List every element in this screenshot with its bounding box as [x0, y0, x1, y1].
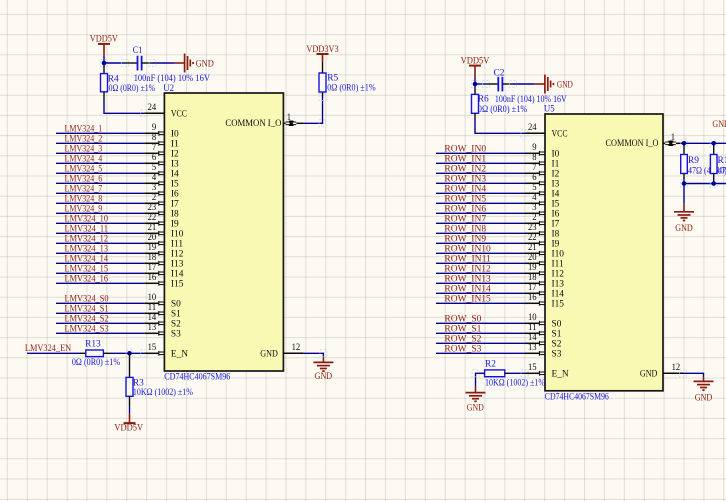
wire net ROW_S3: [436, 352, 525, 354]
wire net LMV324_S3: [56, 332, 144, 334]
resistor R9: [683, 143, 685, 147]
svg-text:GND: GND: [196, 59, 214, 69]
svg-text:11: 11: [528, 323, 537, 333]
pin 4 I5 (U5): [525, 202, 540, 204]
wire net ROW_IN3: [436, 182, 525, 184]
pin 21 I10 (U5): [525, 252, 540, 254]
svg-text:6: 6: [152, 153, 157, 163]
svg-text:I12: I12: [552, 269, 565, 279]
svg-text:S2: S2: [171, 319, 181, 329]
svg-text:ROW_IN2: ROW_IN2: [444, 164, 486, 174]
wire net ROW_IN15: [436, 302, 525, 304]
svg-text:S3: S3: [552, 349, 562, 359]
ground GND (right of C1): [175, 62, 185, 64]
svg-text:I0: I0: [552, 149, 560, 159]
wire net LMV324_8: [56, 202, 144, 204]
svg-text:R6: R6: [478, 95, 489, 105]
wire net LMV324_S0: [56, 302, 144, 304]
svg-text:ROW_IN1: ROW_IN1: [444, 154, 486, 164]
pin 20 I11 (U5): [525, 262, 540, 264]
svg-text:4: 4: [152, 173, 157, 183]
svg-text:100nF (104) 10% 16V: 100nF (104) 10% 16V: [495, 94, 567, 105]
svg-text:CD74HC4067SM96: CD74HC4067SM96: [164, 373, 230, 383]
pin 16 I15 (U5): [525, 302, 540, 304]
wire net LMV324_16: [56, 282, 144, 284]
svg-text:COMMON I_O: COMMON I_O: [606, 139, 659, 149]
svg-text:I11: I11: [552, 259, 564, 269]
svg-text:22: 22: [528, 233, 537, 243]
svg-text:7: 7: [152, 143, 157, 153]
svg-text:ROW_IN8: ROW_IN8: [444, 224, 486, 234]
node junction R9 bottom: [682, 181, 687, 186]
svg-text:I1: I1: [552, 159, 560, 169]
svg-text:ROW_IN4: ROW_IN4: [444, 184, 486, 194]
pin 9 I0 (U5): [525, 152, 540, 154]
svg-text:24: 24: [148, 103, 157, 113]
node junction VDD5V/R6/C2: [473, 82, 478, 87]
svg-text:14: 14: [148, 313, 157, 323]
svg-text:23: 23: [148, 203, 157, 213]
svg-text:ROW_IN9: ROW_IN9: [444, 234, 486, 244]
pin 8 I1: [144, 142, 159, 144]
svg-text:ROW_IN0: ROW_IN0: [444, 144, 486, 154]
resistor R5: [322, 92, 324, 97]
wire net ROW_IN6: [436, 212, 525, 214]
svg-text:0Ω (0R0) ±1%: 0Ω (0R0) ±1%: [109, 83, 156, 94]
pin 8 I1 (U5): [525, 162, 540, 164]
capacitor C2: [486, 83, 498, 85]
svg-text:2: 2: [152, 193, 157, 203]
wire pin12 to ground: [303, 353, 323, 357]
svg-text:10: 10: [528, 313, 537, 323]
wire net ROW_IN13: [436, 282, 525, 284]
wire net LMV324_S2: [56, 322, 144, 324]
svg-text:R13: R13: [85, 339, 101, 349]
svg-text:18: 18: [528, 273, 537, 283]
node junction R9 top: [682, 141, 687, 146]
wire net ROW_IN12: [436, 272, 525, 274]
wire net LMV324_1: [56, 132, 144, 134]
svg-text:LMV324_S3: LMV324_S3: [65, 324, 109, 334]
svg-text:LMV324_EN: LMV324_EN: [25, 344, 71, 354]
svg-text:I7: I7: [171, 199, 179, 209]
wire LMV324_EN to R13: [27, 352, 80, 354]
svg-text:LMV324_3: LMV324_3: [65, 144, 103, 154]
pin 3 I6: [144, 192, 159, 194]
pin 14 S2: [144, 322, 159, 324]
svg-text:24: 24: [528, 123, 537, 133]
wire terminator bottoms: [684, 183, 726, 185]
svg-text:I9: I9: [552, 239, 560, 249]
svg-text:VCC: VCC: [171, 109, 187, 119]
resistor R10: [713, 143, 715, 147]
wire R13 to pin 15: [110, 352, 144, 354]
wire R6 to pin 24 (U5): [475, 119, 525, 133]
svg-text:LMV324_S2: LMV324_S2: [65, 314, 109, 324]
node junction R10 bottom: [711, 181, 716, 186]
svg-text:14: 14: [528, 333, 537, 343]
pin 21 I10: [144, 232, 159, 234]
svg-text:2: 2: [532, 213, 537, 223]
svg-text:I2: I2: [171, 149, 179, 159]
pin 5 I4 (U5): [525, 192, 540, 194]
wire net LMV324_6: [56, 182, 144, 184]
svg-text:8: 8: [532, 153, 537, 163]
pin 15 E_N: [144, 352, 159, 354]
wire R4 to pin 24: [104, 101, 144, 113]
svg-text:19: 19: [148, 243, 157, 253]
pin 16 I15: [144, 282, 159, 284]
wire R2 to pin 15 (U5): [510, 372, 525, 374]
svg-text:VDD3V3: VDD3V3: [306, 45, 338, 55]
wire pin12 to ground (U5): [683, 373, 704, 376]
pin 6 I3 (U5): [525, 182, 540, 184]
svg-text:ROW_IN7: ROW_IN7: [444, 214, 486, 224]
svg-text:I10: I10: [171, 229, 184, 239]
svg-text:6: 6: [532, 173, 537, 183]
wire net ROW_IN14: [436, 292, 525, 294]
svg-text:16: 16: [528, 293, 537, 303]
svg-text:100nF (104) 10% 16V: 100nF (104) 10% 16V: [134, 73, 210, 84]
power port VDD5V (below R3): [129, 407, 131, 414]
svg-text:11: 11: [148, 303, 157, 313]
svg-text:LMV324_1: LMV324_1: [65, 124, 103, 134]
multiplexer U2 body: [164, 93, 283, 371]
svg-text:LMV324_8: LMV324_8: [65, 194, 103, 204]
pin 10 S0 (U5): [525, 322, 540, 324]
pin 13 S3 (U5): [525, 352, 540, 354]
multiplexer U5 body: [545, 114, 663, 391]
pin 3 I6 (U5): [525, 212, 540, 214]
pin 1 COMMON I_O (U5): [663, 142, 665, 144]
wire net ROW_IN0: [436, 152, 525, 154]
svg-text:1: 1: [671, 133, 676, 143]
svg-text:GND: GND: [260, 349, 278, 359]
svg-text:17: 17: [528, 283, 537, 293]
svg-text:47Ω (47R0) ±1%: 47Ω (47R0) ±1%: [718, 165, 726, 176]
node junction R10 top: [711, 141, 716, 146]
svg-text:I8: I8: [171, 209, 179, 219]
svg-text:LMV324_2: LMV324_2: [65, 134, 103, 144]
svg-text:I14: I14: [552, 289, 565, 299]
ground GND (terminators): [683, 204, 685, 212]
svg-text:16: 16: [148, 273, 157, 283]
pin 23 I8: [144, 212, 159, 214]
wire net ROW_IN11: [436, 262, 525, 264]
pin 7 I2: [144, 152, 159, 154]
svg-text:1: 1: [287, 113, 292, 123]
ground GND at U2 pin 12: [322, 357, 324, 362]
svg-text:I3: I3: [171, 159, 179, 169]
resistor R4: [103, 63, 105, 67]
svg-text:ROW_IN10: ROW_IN10: [444, 244, 491, 254]
pin 1 COMMON I_O: [283, 122, 285, 124]
pin 11 S1 (U5): [525, 332, 540, 334]
pin 19 I12 (U5): [525, 272, 540, 274]
wire net LMV324_14: [56, 262, 144, 264]
svg-text:I6: I6: [552, 209, 560, 219]
svg-text:U2: U2: [163, 84, 174, 94]
svg-text:CD74HC4067SM96: CD74HC4067SM96: [545, 393, 609, 403]
pin 13 S3: [144, 332, 159, 334]
svg-text:22: 22: [148, 213, 157, 223]
svg-text:S1: S1: [171, 309, 181, 319]
wire net LMV324_9: [56, 212, 144, 214]
resistor R2 pulldown: [480, 372, 485, 374]
svg-text:9: 9: [532, 143, 537, 153]
svg-text:15: 15: [528, 363, 537, 373]
svg-text:LMV324_10: LMV324_10: [65, 214, 109, 224]
wire net LMV324_10: [56, 222, 144, 224]
svg-text:GND: GND: [557, 81, 573, 91]
svg-text:LMV324_11: LMV324_11: [65, 224, 109, 234]
svg-text:ROW_S2: ROW_S2: [444, 334, 481, 344]
svg-text:I9: I9: [171, 219, 179, 229]
svg-text:R5: R5: [327, 73, 338, 83]
svg-text:S0: S0: [171, 299, 181, 309]
resistor R3: [129, 353, 131, 377]
pin 5 I4: [144, 172, 159, 174]
svg-text:3: 3: [152, 183, 157, 193]
svg-text:R10: R10: [718, 156, 726, 166]
svg-text:I8: I8: [552, 229, 560, 239]
svg-text:I11: I11: [171, 239, 183, 249]
wire net ROW_IN5: [436, 202, 525, 204]
svg-text:ROW_IN12: ROW_IN12: [444, 264, 491, 274]
svg-text:5: 5: [532, 183, 537, 193]
svg-text:VDD5V: VDD5V: [114, 424, 143, 434]
svg-text:GND: GND: [695, 394, 713, 404]
chip body fills under grid: [164, 93, 283, 371]
svg-text:GND: GND: [640, 369, 658, 379]
wire net ROW_IN2: [436, 172, 525, 174]
pin 12 GND (U2): [283, 352, 303, 354]
pin 2 I7: [144, 202, 159, 204]
wire net ROW_IN7: [436, 222, 525, 224]
svg-text:I15: I15: [552, 299, 565, 309]
svg-text:I5: I5: [171, 179, 179, 189]
resistor R6: [474, 84, 476, 88]
svg-text:12: 12: [672, 363, 681, 373]
svg-text:I2: I2: [552, 169, 560, 179]
svg-text:ROW_IN11: ROW_IN11: [444, 254, 491, 264]
svg-text:R2: R2: [485, 359, 496, 369]
wire C2 to GND: [513, 83, 535, 85]
svg-text:GND: GND: [675, 224, 693, 234]
wire net LMV324_15: [56, 272, 144, 274]
svg-text:LMV324_6: LMV324_6: [65, 174, 103, 184]
wire C1 to GND: [153, 62, 175, 64]
svg-text:0Ω (0R0) ±1%: 0Ω (0R0) ±1%: [72, 357, 120, 368]
wire net ROW_IN4: [436, 192, 525, 194]
svg-text:10: 10: [148, 293, 157, 303]
pin 18 I13: [144, 262, 159, 264]
wire net ROW_IN8: [436, 232, 525, 234]
svg-text:I10: I10: [552, 249, 565, 259]
svg-text:I0: I0: [171, 129, 179, 139]
pin 17 I14 (U5): [525, 292, 540, 294]
svg-text:0Ω (0R0) ±1%: 0Ω (0R0) ±1%: [327, 83, 376, 94]
wire net ROW_IN10: [436, 252, 525, 254]
svg-text:LMV324_14: LMV324_14: [65, 254, 109, 264]
ground GND (R2): [475, 386, 477, 392]
svg-text:VCC: VCC: [552, 129, 568, 139]
pin 19 I12: [144, 252, 159, 254]
wire net LMV324_S1: [56, 312, 144, 314]
svg-text:ROW_IN5: ROW_IN5: [444, 194, 486, 204]
pin 12 GND (U5): [663, 372, 683, 374]
wire GND corner to R2: [476, 373, 485, 386]
pin 10 S0: [144, 302, 159, 304]
svg-text:ROW_S1: ROW_S1: [444, 324, 481, 334]
svg-text:9: 9: [152, 123, 157, 133]
svg-text:23: 23: [528, 223, 537, 233]
svg-text:E_N: E_N: [552, 369, 569, 379]
svg-text:ROW_S0: ROW_S0: [444, 314, 481, 324]
svg-text:GND: GND: [712, 120, 726, 130]
pin 24 VCC: [144, 112, 164, 114]
ground GND at U5 pin 12: [703, 377, 705, 382]
wire junction to C2: [475, 83, 486, 85]
svg-text:I7: I7: [552, 219, 560, 229]
svg-text:R9: R9: [688, 156, 699, 166]
svg-text:ROW_IN14: ROW_IN14: [444, 284, 491, 294]
svg-text:I12: I12: [171, 249, 184, 259]
svg-text:13: 13: [528, 343, 537, 353]
pin 20 I11: [144, 242, 159, 244]
svg-text:LMV324_5: LMV324_5: [65, 164, 103, 174]
wire net ROW_S2: [436, 342, 525, 344]
svg-text:I13: I13: [552, 279, 565, 289]
svg-text:I1: I1: [171, 139, 179, 149]
svg-text:I4: I4: [171, 169, 179, 179]
wire net LMV324_7: [56, 192, 144, 194]
svg-text:8: 8: [152, 133, 157, 143]
svg-text:7: 7: [532, 163, 537, 173]
wire net LMV324_2: [56, 142, 144, 144]
svg-text:C1: C1: [133, 46, 143, 56]
svg-text:21: 21: [528, 243, 537, 253]
wire net ROW_S0: [436, 322, 525, 324]
svg-text:I3: I3: [552, 179, 560, 189]
node A junction VDD5V/R4/C1: [102, 61, 107, 66]
svg-text:I5: I5: [552, 199, 560, 209]
svg-text:E_N: E_N: [171, 349, 188, 359]
svg-text:S2: S2: [552, 339, 562, 349]
pin 23 I8 (U5): [525, 232, 540, 234]
pin 24 VCC (U5): [525, 132, 545, 134]
svg-text:LMV324_12: LMV324_12: [65, 234, 109, 244]
svg-text:I6: I6: [171, 189, 179, 199]
pin 11 S1: [144, 312, 159, 314]
svg-text:5: 5: [152, 163, 157, 173]
svg-text:18: 18: [148, 253, 157, 263]
svg-text:0Ω (0R0) ±1%: 0Ω (0R0) ±1%: [478, 104, 528, 115]
wire pin1 U5 to terminators: [683, 142, 726, 144]
svg-text:17: 17: [148, 263, 157, 273]
wire net ROW_IN9: [436, 242, 525, 244]
svg-text:3: 3: [532, 203, 537, 213]
wire to ground (terminators): [683, 184, 685, 204]
capacitor C1: [125, 62, 137, 64]
node junction EN/R3: [127, 351, 132, 356]
svg-text:13: 13: [148, 323, 157, 333]
svg-text:10KΩ (1002) ±1%: 10KΩ (1002) ±1%: [485, 377, 545, 388]
pin 14 S2 (U5): [525, 342, 540, 344]
wire net LMV324_5: [56, 172, 144, 174]
svg-text:LMV324_9: LMV324_9: [65, 204, 103, 214]
svg-text:ROW_IN3: ROW_IN3: [444, 174, 486, 184]
wire net LMV324_11: [56, 232, 144, 234]
svg-text:12: 12: [292, 343, 301, 353]
svg-text:LMV324_7: LMV324_7: [65, 184, 103, 194]
svg-text:I14: I14: [171, 269, 184, 279]
wire net LMV324_4: [56, 162, 144, 164]
svg-text:LMV324_16: LMV324_16: [65, 274, 109, 284]
svg-text:ROW_IN15: ROW_IN15: [444, 294, 491, 304]
svg-text:R4: R4: [108, 74, 119, 84]
svg-text:C2: C2: [494, 69, 505, 79]
svg-text:4: 4: [532, 193, 537, 203]
svg-text:20: 20: [148, 233, 157, 243]
svg-text:I15: I15: [171, 279, 184, 289]
pin 7 I2 (U5): [525, 172, 540, 174]
pin 2 I7 (U5): [525, 222, 540, 224]
svg-text:21: 21: [148, 223, 157, 233]
svg-text:15: 15: [148, 343, 157, 353]
svg-text:LMV324_15: LMV324_15: [65, 264, 109, 274]
pin 9 I0: [144, 132, 159, 134]
pin 6 I3: [144, 162, 159, 164]
pin 22 I9: [144, 222, 159, 224]
wire junction to C1: [104, 62, 125, 64]
wire net LMV324_3: [56, 152, 144, 154]
ground GND (right of C2): [535, 83, 545, 85]
wire net ROW_S1: [436, 332, 525, 334]
svg-text:ROW_IN6: ROW_IN6: [444, 204, 486, 214]
svg-text:ROW_S3: ROW_S3: [444, 344, 481, 354]
svg-text:S3: S3: [171, 329, 181, 339]
svg-text:GND: GND: [467, 404, 484, 414]
power port VDD3V3: [322, 54, 324, 62]
svg-text:10KΩ (1002) ±1%: 10KΩ (1002) ±1%: [133, 387, 193, 398]
pin 22 I9 (U5): [525, 242, 540, 244]
svg-text:U5: U5: [544, 105, 555, 115]
svg-text:GND: GND: [315, 372, 333, 382]
wire net ROW_IN1: [436, 162, 525, 164]
pin 4 I5: [144, 182, 159, 184]
wire net LMV324_12: [56, 242, 144, 244]
svg-text:LMV324_4: LMV324_4: [65, 154, 103, 164]
svg-text:S1: S1: [552, 329, 562, 339]
svg-text:COMMON I_O: COMMON I_O: [225, 119, 281, 129]
svg-text:LMV324_13: LMV324_13: [65, 244, 109, 254]
pin 15 E_N (U5): [525, 372, 540, 374]
svg-text:19: 19: [528, 263, 537, 273]
pin 18 I13 (U5): [525, 282, 540, 284]
wire net LMV324_13: [56, 252, 144, 254]
resistor R13: [80, 352, 86, 354]
svg-text:20: 20: [528, 253, 537, 263]
pin 17 I14: [144, 272, 159, 274]
svg-text:S0: S0: [552, 319, 562, 329]
svg-text:I4: I4: [552, 189, 560, 199]
wire pin1 to R5: [303, 97, 322, 123]
svg-text:LMV324_S1: LMV324_S1: [65, 304, 109, 314]
svg-text:I13: I13: [171, 259, 184, 269]
svg-text:LMV324_S0: LMV324_S0: [65, 294, 109, 304]
svg-text:ROW_IN13: ROW_IN13: [444, 274, 491, 284]
